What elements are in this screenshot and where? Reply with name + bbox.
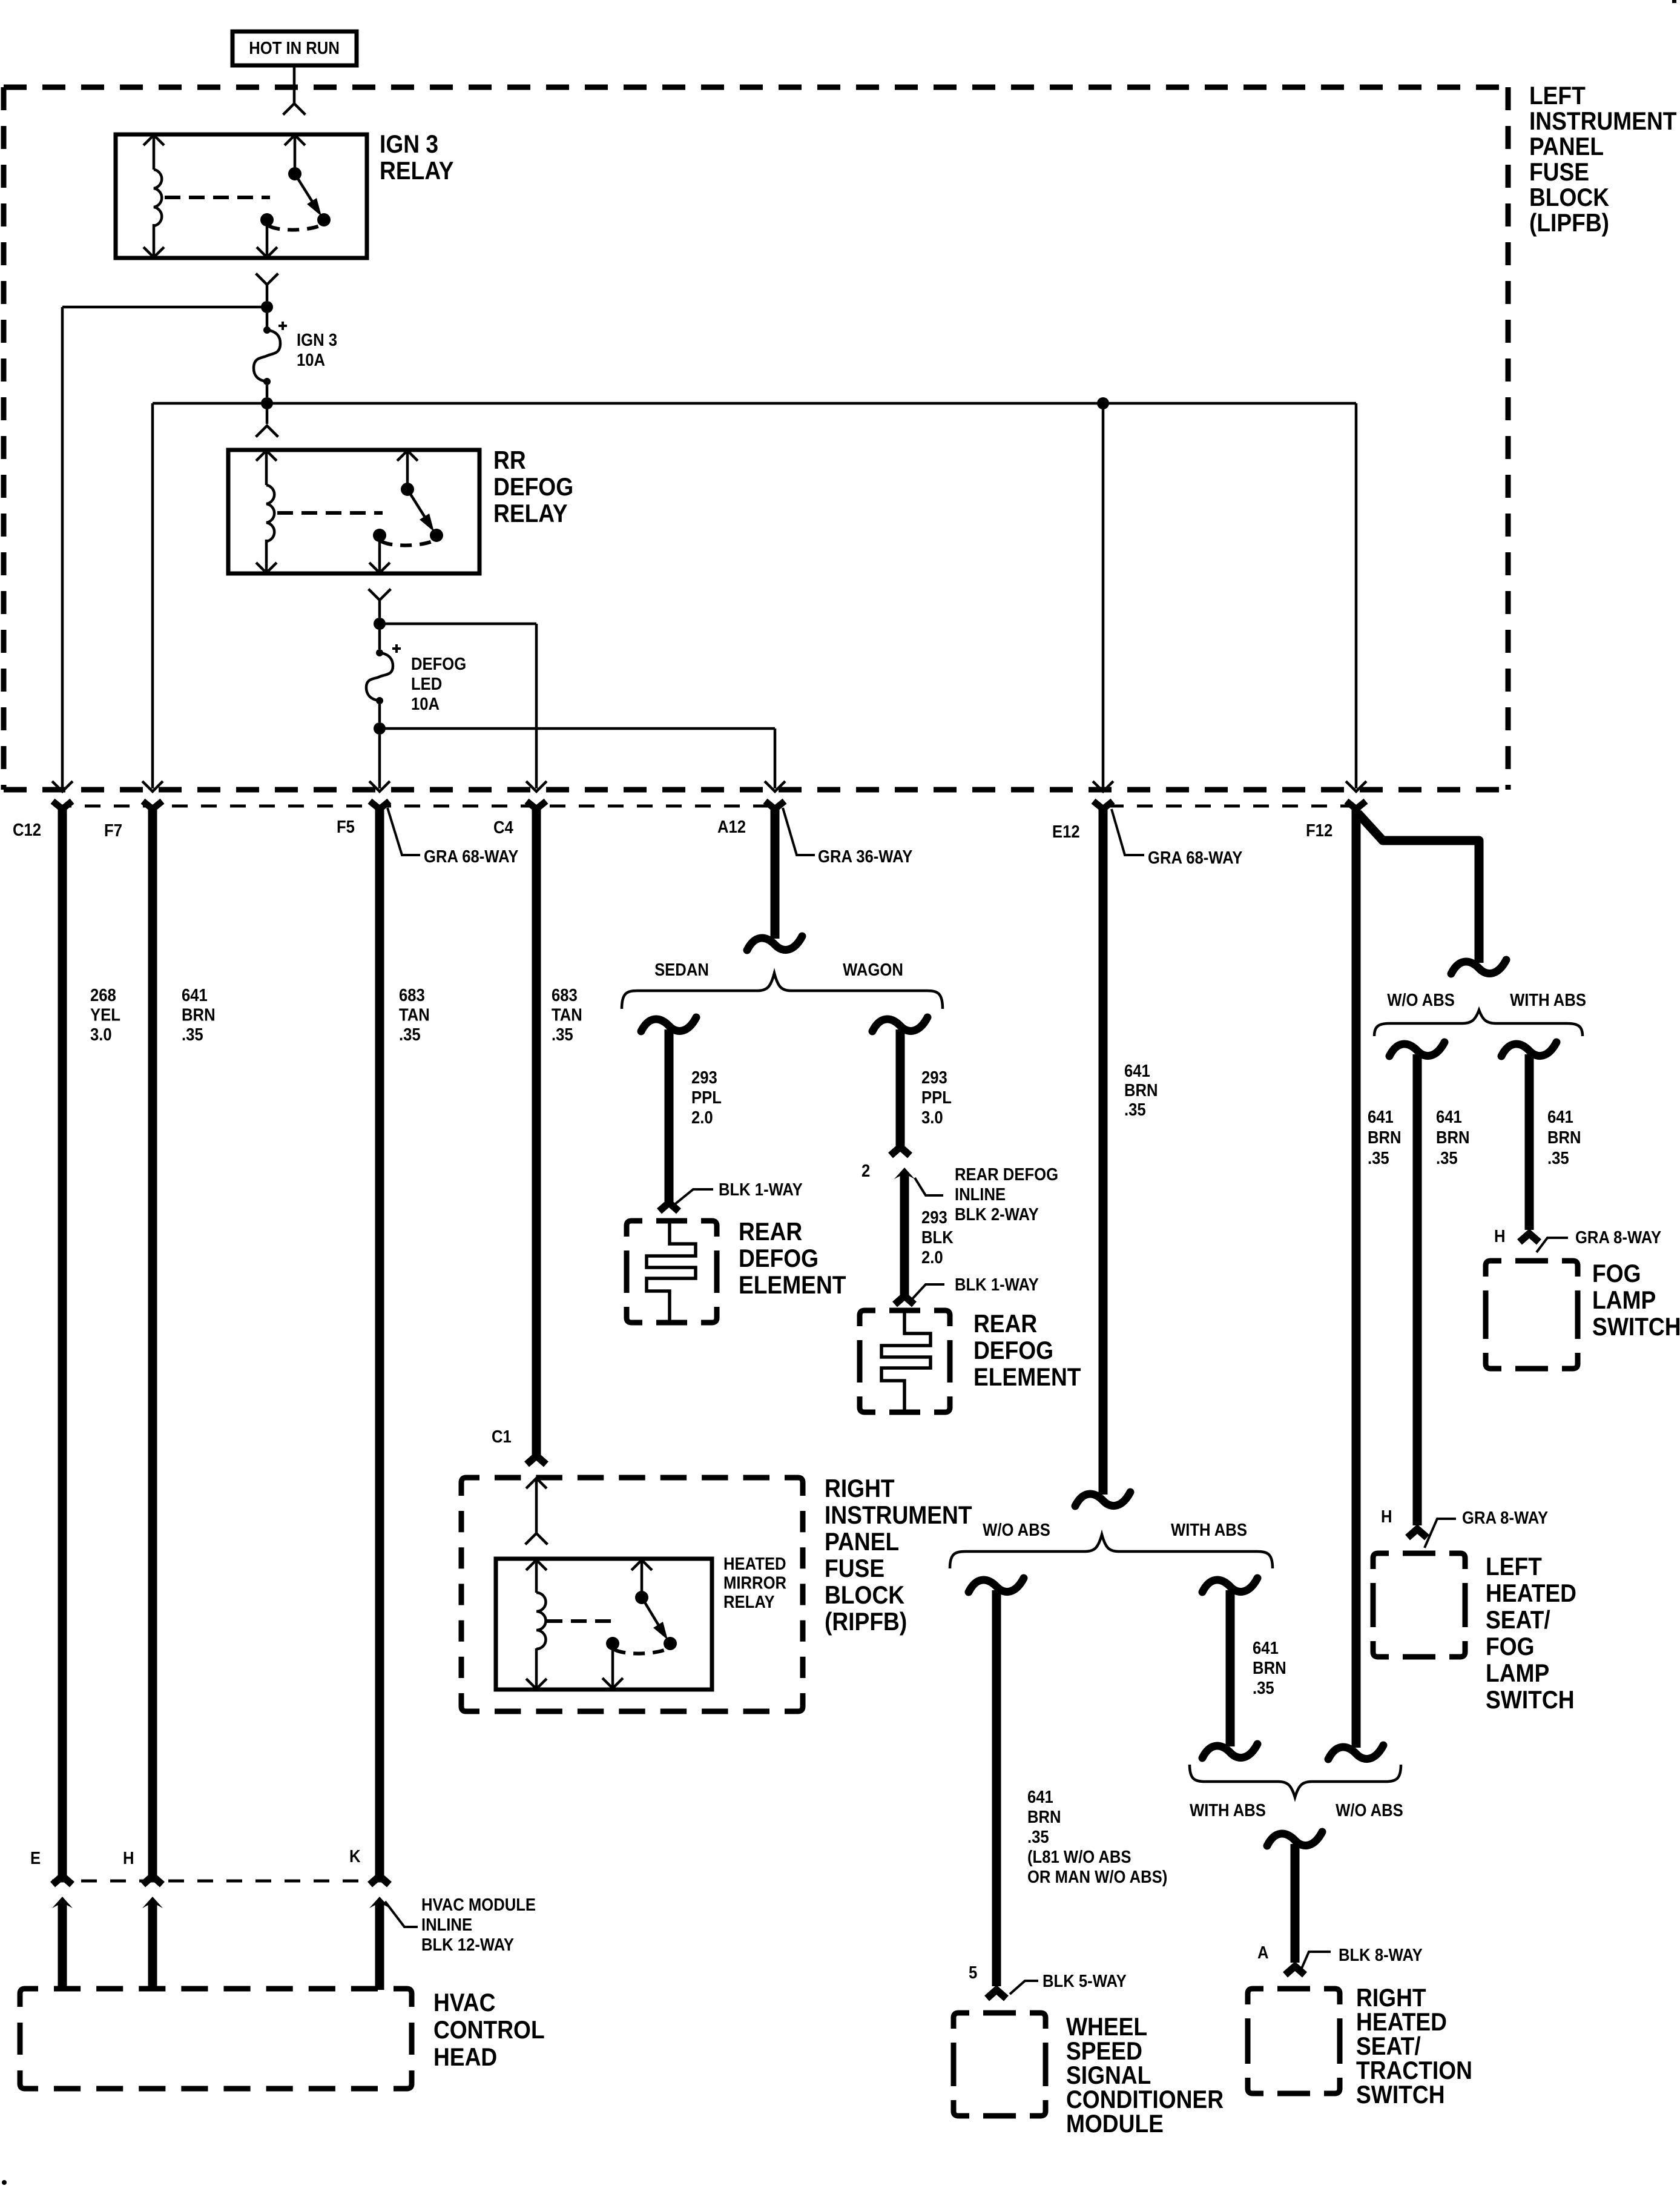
svg-text:.35: .35 bbox=[1253, 1678, 1274, 1698]
svg-text:HEATED: HEATED bbox=[1486, 1579, 1576, 1608]
svg-text:293: 293 bbox=[921, 1208, 947, 1227]
svg-text:H: H bbox=[123, 1848, 134, 1868]
svg-text:WITH ABS: WITH ABS bbox=[1171, 1520, 1247, 1540]
svg-text:FUSE: FUSE bbox=[1529, 158, 1589, 187]
svg-text:A: A bbox=[1257, 1943, 1269, 1963]
svg-text:GRA 8-WAY: GRA 8-WAY bbox=[1575, 1227, 1661, 1247]
svg-text:INSTRUMENT: INSTRUMENT bbox=[825, 1501, 972, 1530]
svg-text:H: H bbox=[1494, 1226, 1506, 1246]
svg-text:BLK 1-WAY: BLK 1-WAY bbox=[955, 1275, 1039, 1295]
svg-text:WAGON: WAGON bbox=[843, 960, 903, 980]
svg-text:ELEMENT: ELEMENT bbox=[739, 1271, 846, 1300]
svg-text:.35: .35 bbox=[552, 1025, 573, 1045]
svg-text:W/O ABS: W/O ABS bbox=[983, 1520, 1050, 1540]
svg-text:FUSE: FUSE bbox=[825, 1554, 884, 1583]
svg-text:BLK 8-WAY: BLK 8-WAY bbox=[1339, 1945, 1423, 1965]
svg-text:3.0: 3.0 bbox=[90, 1025, 112, 1045]
svg-text:3.0: 3.0 bbox=[921, 1108, 943, 1128]
svg-text:E: E bbox=[30, 1848, 41, 1868]
svg-text:SEDAN: SEDAN bbox=[654, 960, 709, 980]
svg-text:GRA 68-WAY: GRA 68-WAY bbox=[1148, 848, 1242, 868]
svg-text:683: 683 bbox=[552, 985, 578, 1005]
svg-text:HOT IN RUN: HOT IN RUN bbox=[249, 38, 340, 58]
svg-text:CONTROL: CONTROL bbox=[433, 2016, 545, 2044]
svg-text:C1: C1 bbox=[492, 1427, 512, 1447]
svg-text:IGN 3: IGN 3 bbox=[297, 330, 337, 350]
svg-text:PANEL: PANEL bbox=[1529, 133, 1604, 161]
svg-text:641: 641 bbox=[1547, 1107, 1573, 1127]
svg-text:(RIPFB): (RIPFB) bbox=[825, 1608, 907, 1636]
svg-text:BLK 1-WAY: BLK 1-WAY bbox=[719, 1180, 803, 1200]
svg-text:LAMP: LAMP bbox=[1592, 1286, 1656, 1315]
svg-text:PPL: PPL bbox=[921, 1088, 952, 1108]
svg-text:BLOCK: BLOCK bbox=[825, 1581, 904, 1610]
svg-text:OR MAN W/O ABS): OR MAN W/O ABS) bbox=[1027, 1867, 1167, 1887]
svg-text:E12: E12 bbox=[1052, 822, 1080, 842]
svg-text:WITH ABS: WITH ABS bbox=[1190, 1800, 1266, 1820]
svg-text:5: 5 bbox=[969, 1963, 977, 1983]
svg-text:PANEL: PANEL bbox=[825, 1528, 899, 1556]
svg-text:641: 641 bbox=[1124, 1061, 1150, 1081]
svg-text:W/O ABS: W/O ABS bbox=[1387, 990, 1455, 1010]
svg-text:REAR DEFOG: REAR DEFOG bbox=[955, 1165, 1058, 1184]
svg-text:268: 268 bbox=[90, 985, 116, 1005]
svg-text:TAN: TAN bbox=[552, 1005, 582, 1025]
svg-text:641: 641 bbox=[1368, 1107, 1394, 1127]
svg-text:BRN: BRN bbox=[1368, 1128, 1402, 1148]
svg-text:641: 641 bbox=[182, 985, 208, 1005]
svg-text:BRN: BRN bbox=[1253, 1658, 1286, 1678]
svg-text:641: 641 bbox=[1253, 1638, 1279, 1658]
svg-text:F12: F12 bbox=[1306, 821, 1332, 841]
svg-text:RIGHT: RIGHT bbox=[825, 1475, 895, 1503]
svg-text:.35: .35 bbox=[1124, 1100, 1146, 1120]
svg-text:FOG: FOG bbox=[1592, 1260, 1641, 1288]
svg-text:BLOCK: BLOCK bbox=[1529, 183, 1609, 212]
svg-text:RR: RR bbox=[493, 446, 526, 475]
svg-text:C4: C4 bbox=[493, 818, 514, 838]
svg-text:LEFT: LEFT bbox=[1486, 1553, 1542, 1581]
svg-text:HEAD: HEAD bbox=[433, 2043, 497, 2072]
svg-text:W/O ABS: W/O ABS bbox=[1336, 1800, 1403, 1820]
svg-text:LAMP: LAMP bbox=[1486, 1659, 1549, 1688]
svg-text:GRA 8-WAY: GRA 8-WAY bbox=[1462, 1508, 1548, 1528]
svg-text:BLK 2-WAY: BLK 2-WAY bbox=[955, 1204, 1039, 1224]
svg-text:DEFOG: DEFOG bbox=[973, 1336, 1053, 1365]
svg-text:DEFOG: DEFOG bbox=[739, 1244, 819, 1273]
svg-text:SWITCH: SWITCH bbox=[1356, 2081, 1445, 2109]
svg-text:YEL: YEL bbox=[90, 1005, 120, 1025]
svg-text:TAN: TAN bbox=[399, 1005, 430, 1025]
svg-text:BRN: BRN bbox=[1547, 1128, 1581, 1148]
svg-text:.35: .35 bbox=[1027, 1827, 1049, 1847]
svg-text:LED: LED bbox=[411, 674, 442, 694]
svg-text:SWITCH: SWITCH bbox=[1486, 1686, 1575, 1714]
svg-text:GRA 68-WAY: GRA 68-WAY bbox=[424, 847, 518, 867]
svg-text:DEFOG: DEFOG bbox=[493, 473, 573, 501]
svg-text:LEFT: LEFT bbox=[1529, 82, 1586, 110]
svg-text:INLINE: INLINE bbox=[955, 1184, 1006, 1204]
svg-text:10A: 10A bbox=[411, 694, 440, 714]
svg-text:293: 293 bbox=[921, 1068, 947, 1088]
svg-text:2: 2 bbox=[861, 1161, 870, 1181]
svg-text:BRN: BRN bbox=[182, 1005, 216, 1025]
svg-text:RELAY: RELAY bbox=[723, 1592, 775, 1612]
svg-text:.35: .35 bbox=[399, 1025, 421, 1045]
svg-text:MIRROR: MIRROR bbox=[723, 1573, 786, 1593]
svg-text:PPL: PPL bbox=[691, 1088, 722, 1108]
svg-text:INLINE: INLINE bbox=[421, 1915, 472, 1935]
svg-text:641: 641 bbox=[1027, 1787, 1053, 1807]
svg-text:683: 683 bbox=[399, 985, 425, 1005]
svg-text:ELEMENT: ELEMENT bbox=[973, 1363, 1081, 1392]
svg-text:F7: F7 bbox=[104, 821, 122, 841]
svg-text:FOG: FOG bbox=[1486, 1633, 1535, 1661]
svg-text:BRN: BRN bbox=[1436, 1128, 1470, 1148]
svg-text:.35: .35 bbox=[182, 1025, 203, 1045]
svg-text:BRN: BRN bbox=[1027, 1807, 1061, 1827]
svg-text:2.0: 2.0 bbox=[691, 1108, 713, 1128]
svg-text:HVAC MODULE: HVAC MODULE bbox=[421, 1895, 536, 1915]
svg-text:2.0: 2.0 bbox=[921, 1247, 943, 1267]
svg-text:SEAT/: SEAT/ bbox=[1486, 1606, 1550, 1634]
svg-text:K: K bbox=[349, 1846, 361, 1866]
svg-text:MODULE: MODULE bbox=[1066, 2110, 1164, 2138]
svg-text:GRA 36-WAY: GRA 36-WAY bbox=[818, 847, 912, 867]
svg-text:(L81 W/O ABS: (L81 W/O ABS bbox=[1027, 1847, 1132, 1867]
svg-text:INSTRUMENT: INSTRUMENT bbox=[1529, 107, 1677, 136]
svg-text:DEFOG: DEFOG bbox=[411, 654, 466, 674]
svg-text:HEATED: HEATED bbox=[723, 1554, 786, 1574]
svg-text:SWITCH: SWITCH bbox=[1592, 1313, 1680, 1341]
svg-text:REAR: REAR bbox=[973, 1310, 1037, 1338]
svg-text:293: 293 bbox=[691, 1068, 717, 1088]
svg-text:F5: F5 bbox=[337, 817, 355, 837]
svg-text:10A: 10A bbox=[297, 350, 325, 370]
svg-text:.35: .35 bbox=[1436, 1148, 1458, 1168]
svg-text:WITH ABS: WITH ABS bbox=[1510, 990, 1586, 1010]
svg-text:IGN 3: IGN 3 bbox=[380, 130, 438, 159]
svg-text:BLK 5-WAY: BLK 5-WAY bbox=[1043, 1971, 1127, 1991]
svg-text:A12: A12 bbox=[717, 817, 746, 837]
svg-text:HVAC: HVAC bbox=[433, 1989, 496, 2017]
svg-text:REAR: REAR bbox=[739, 1218, 802, 1246]
svg-text:RELAY: RELAY bbox=[380, 157, 454, 185]
svg-text:.35: .35 bbox=[1547, 1148, 1569, 1168]
svg-text:.35: .35 bbox=[1368, 1148, 1389, 1168]
svg-text:H: H bbox=[1381, 1507, 1392, 1527]
svg-text:BLK: BLK bbox=[921, 1227, 954, 1247]
svg-text:BLK 12-WAY: BLK 12-WAY bbox=[421, 1935, 514, 1955]
svg-text:RELAY: RELAY bbox=[493, 500, 568, 528]
svg-text:641: 641 bbox=[1436, 1107, 1462, 1127]
svg-text:BRN: BRN bbox=[1124, 1080, 1158, 1100]
svg-text:(LIPFB): (LIPFB) bbox=[1529, 209, 1609, 237]
svg-text:C12: C12 bbox=[13, 820, 41, 840]
